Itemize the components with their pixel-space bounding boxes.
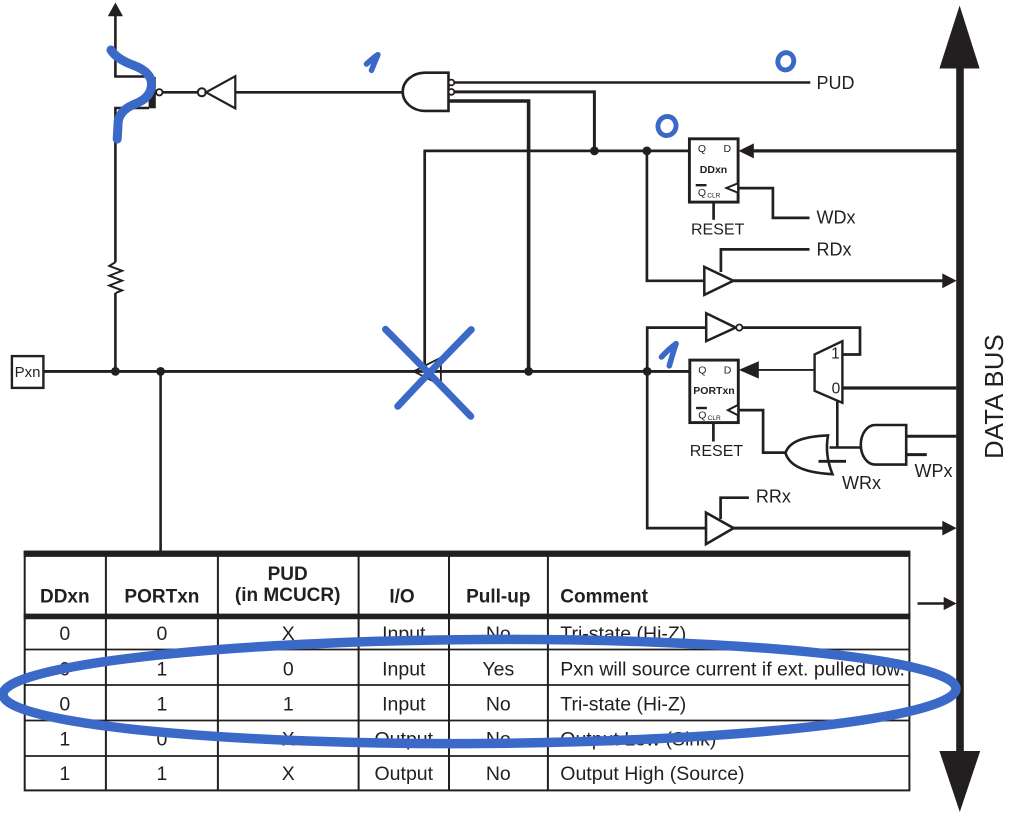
wire mux output to PORTxn D bbox=[739, 361, 815, 378]
svg-text:RRx: RRx bbox=[756, 486, 791, 506]
blue ellipse annotation around table rows bbox=[3, 637, 957, 747]
svg-text:Pull-up: Pull-up bbox=[466, 586, 530, 607]
wire resistor to Pxn net bbox=[114, 293, 117, 372]
svg-text:1: 1 bbox=[59, 763, 70, 785]
svg-text:No: No bbox=[486, 693, 511, 715]
svg-text:0: 0 bbox=[156, 623, 167, 645]
svg-text:DATA BUS: DATA BUS bbox=[981, 334, 1009, 459]
wire inverter output to mux 1 input bbox=[742, 328, 860, 355]
wire gate input from PORTxn net bbox=[449, 101, 529, 371]
svg-text:0: 0 bbox=[283, 659, 294, 681]
svg-text:Q: Q bbox=[698, 410, 706, 422]
svg-text:D: D bbox=[724, 364, 732, 376]
svg-text:0: 0 bbox=[59, 693, 70, 715]
svg-text:Pxn: Pxn bbox=[15, 364, 41, 381]
junction DDxn Q / RDx branch bbox=[643, 147, 652, 156]
svg-text:0: 0 bbox=[832, 380, 841, 397]
svg-text:Pxn will source current if ext: Pxn will source current if ext. pulled l… bbox=[560, 659, 905, 681]
wire WPx stub bbox=[906, 453, 927, 456]
wire Pxn net main horizontal bbox=[44, 370, 690, 373]
svg-text:CLR: CLR bbox=[708, 415, 721, 422]
wire PUD bbox=[454, 81, 810, 84]
wire RRx output to data bus bbox=[734, 521, 957, 536]
AND gate U2 pull-up enable bbox=[403, 73, 455, 111]
svg-text:Tri-state (Hi-Z): Tri-state (Hi-Z) bbox=[560, 693, 686, 715]
wire PORTxn reset stub bbox=[712, 423, 715, 442]
wire RDx enable bbox=[721, 249, 810, 272]
junction gate branch bbox=[524, 367, 533, 376]
svg-text:1: 1 bbox=[831, 346, 840, 363]
svg-text:PUD: PUD bbox=[817, 73, 855, 93]
junction resistor / Pxn net bbox=[111, 367, 120, 376]
svg-text:Input: Input bbox=[382, 659, 426, 681]
svg-text:PORTxn: PORTxn bbox=[124, 586, 199, 607]
inverter U1 pull-up driver bbox=[198, 76, 236, 108]
buffer RRx tri-state bbox=[706, 513, 734, 545]
junction DDxn Q / gate bbox=[590, 147, 599, 156]
svg-text:1: 1 bbox=[283, 693, 294, 715]
wire table to data bus bbox=[918, 597, 957, 610]
svg-text:DDxn: DDxn bbox=[40, 586, 90, 607]
svg-text:I/O: I/O bbox=[389, 586, 414, 607]
wire transistor source lead bbox=[114, 75, 149, 78]
wire PORTxn clock bbox=[738, 410, 786, 453]
svg-text:DDxn: DDxn bbox=[700, 164, 727, 176]
svg-text:RDx: RDx bbox=[817, 239, 852, 259]
svg-text:1: 1 bbox=[156, 763, 167, 785]
svg-text:Q: Q bbox=[698, 143, 706, 155]
blue scribble annotation over transistor bbox=[111, 50, 152, 139]
wire WDx bbox=[738, 188, 809, 218]
wire RDx output to data bus bbox=[733, 273, 956, 288]
svg-text:RESET: RESET bbox=[690, 443, 744, 460]
table header row bbox=[40, 564, 649, 608]
wire DDxn Q line bbox=[425, 150, 690, 153]
svg-text:(in MCUCR): (in MCUCR) bbox=[235, 585, 341, 606]
wire DDxn Q to RDx buffer bbox=[647, 151, 704, 281]
flip-flop U4 DDxn bbox=[689, 139, 738, 202]
wire gate input from DDxn Q bbox=[454, 92, 594, 151]
svg-text:Comment: Comment bbox=[560, 586, 648, 607]
blue handwritten 0 annotation PUD bbox=[776, 51, 796, 72]
wire output-driver enable vertical bbox=[423, 150, 426, 372]
wire transistor drain lead bbox=[114, 107, 149, 110]
transistor Q1 pull-up PMOS bbox=[149, 77, 163, 108]
table row 4 bbox=[59, 729, 716, 751]
svg-text:Q: Q bbox=[698, 364, 706, 376]
wire VCC to resistor bbox=[114, 108, 117, 262]
svg-text:Output High (Source): Output High (Source) bbox=[560, 763, 744, 785]
svg-text:PUD: PUD bbox=[268, 564, 308, 585]
wire DDxn reset stub bbox=[712, 202, 715, 220]
wire inverter input branch bbox=[647, 328, 706, 372]
table row 1 bbox=[59, 623, 686, 645]
svg-text:1: 1 bbox=[156, 693, 167, 715]
wire PORTxn Q to RRx buffer bbox=[647, 371, 706, 528]
mux M1 bbox=[815, 341, 843, 403]
table column separators bbox=[106, 555, 548, 790]
table row 3 bbox=[59, 693, 686, 715]
wire AND output to OR and mux select bbox=[830, 446, 862, 449]
junction table branch bbox=[156, 367, 165, 376]
svg-text:1: 1 bbox=[59, 729, 70, 751]
buffer U3 output driver crossed out bbox=[414, 358, 441, 386]
blue handwritten 0 annotation DDxn bbox=[656, 114, 679, 137]
VCC pull-up arrow bbox=[108, 3, 123, 77]
data bus bbox=[939, 6, 980, 813]
OR gate U7 clock combine bbox=[785, 435, 832, 474]
svg-text:Yes: Yes bbox=[482, 659, 514, 681]
wire Pxn net to table bbox=[159, 371, 162, 552]
flip-flop U6 PORTxn bbox=[690, 360, 739, 423]
svg-text:CLR: CLR bbox=[707, 192, 720, 199]
table frame bbox=[24, 552, 911, 791]
svg-text:X: X bbox=[282, 763, 295, 785]
wire inverter input from AND gate bbox=[235, 91, 404, 94]
blue X annotation over output driver bbox=[386, 329, 472, 416]
wire mux 0 input from data bus bbox=[842, 386, 956, 389]
svg-text:WPx: WPx bbox=[915, 461, 953, 481]
svg-text:0: 0 bbox=[59, 623, 70, 645]
wire RRx enable bbox=[721, 498, 749, 519]
wire gate lead bbox=[163, 91, 198, 94]
svg-text:No: No bbox=[486, 763, 511, 785]
blue handwritten 1 annotation top bbox=[367, 55, 378, 71]
svg-text:Input: Input bbox=[382, 693, 426, 715]
resistor R1 pull-up bbox=[109, 262, 122, 293]
blue handwritten 1 annotation PORTxn bbox=[662, 344, 677, 366]
svg-text:Output: Output bbox=[375, 763, 434, 785]
table row 2 bbox=[59, 659, 905, 681]
svg-text:RESET: RESET bbox=[691, 222, 745, 239]
svg-text:WDx: WDx bbox=[817, 207, 856, 227]
table row separators bbox=[25, 650, 910, 757]
svg-text:PORTxn: PORTxn bbox=[693, 385, 734, 397]
buffer RDx tri-state bbox=[704, 267, 733, 295]
table row 5 bbox=[59, 763, 744, 785]
node Pxn pin box bbox=[12, 356, 44, 388]
inverter U5 toggle feedback bbox=[706, 313, 742, 341]
junction PORTxn branch bbox=[643, 367, 652, 376]
wire AND input from data bus bbox=[906, 435, 956, 438]
svg-text:WRx: WRx bbox=[842, 473, 881, 493]
wire WRx stub bbox=[819, 460, 847, 463]
svg-text:Q: Q bbox=[698, 187, 706, 199]
AND gate U8 toggle bbox=[861, 425, 906, 465]
wire DDxn D input from data bus bbox=[739, 143, 957, 158]
wire mux select bbox=[836, 401, 839, 448]
svg-text:D: D bbox=[724, 143, 732, 155]
svg-text:1: 1 bbox=[156, 659, 167, 681]
